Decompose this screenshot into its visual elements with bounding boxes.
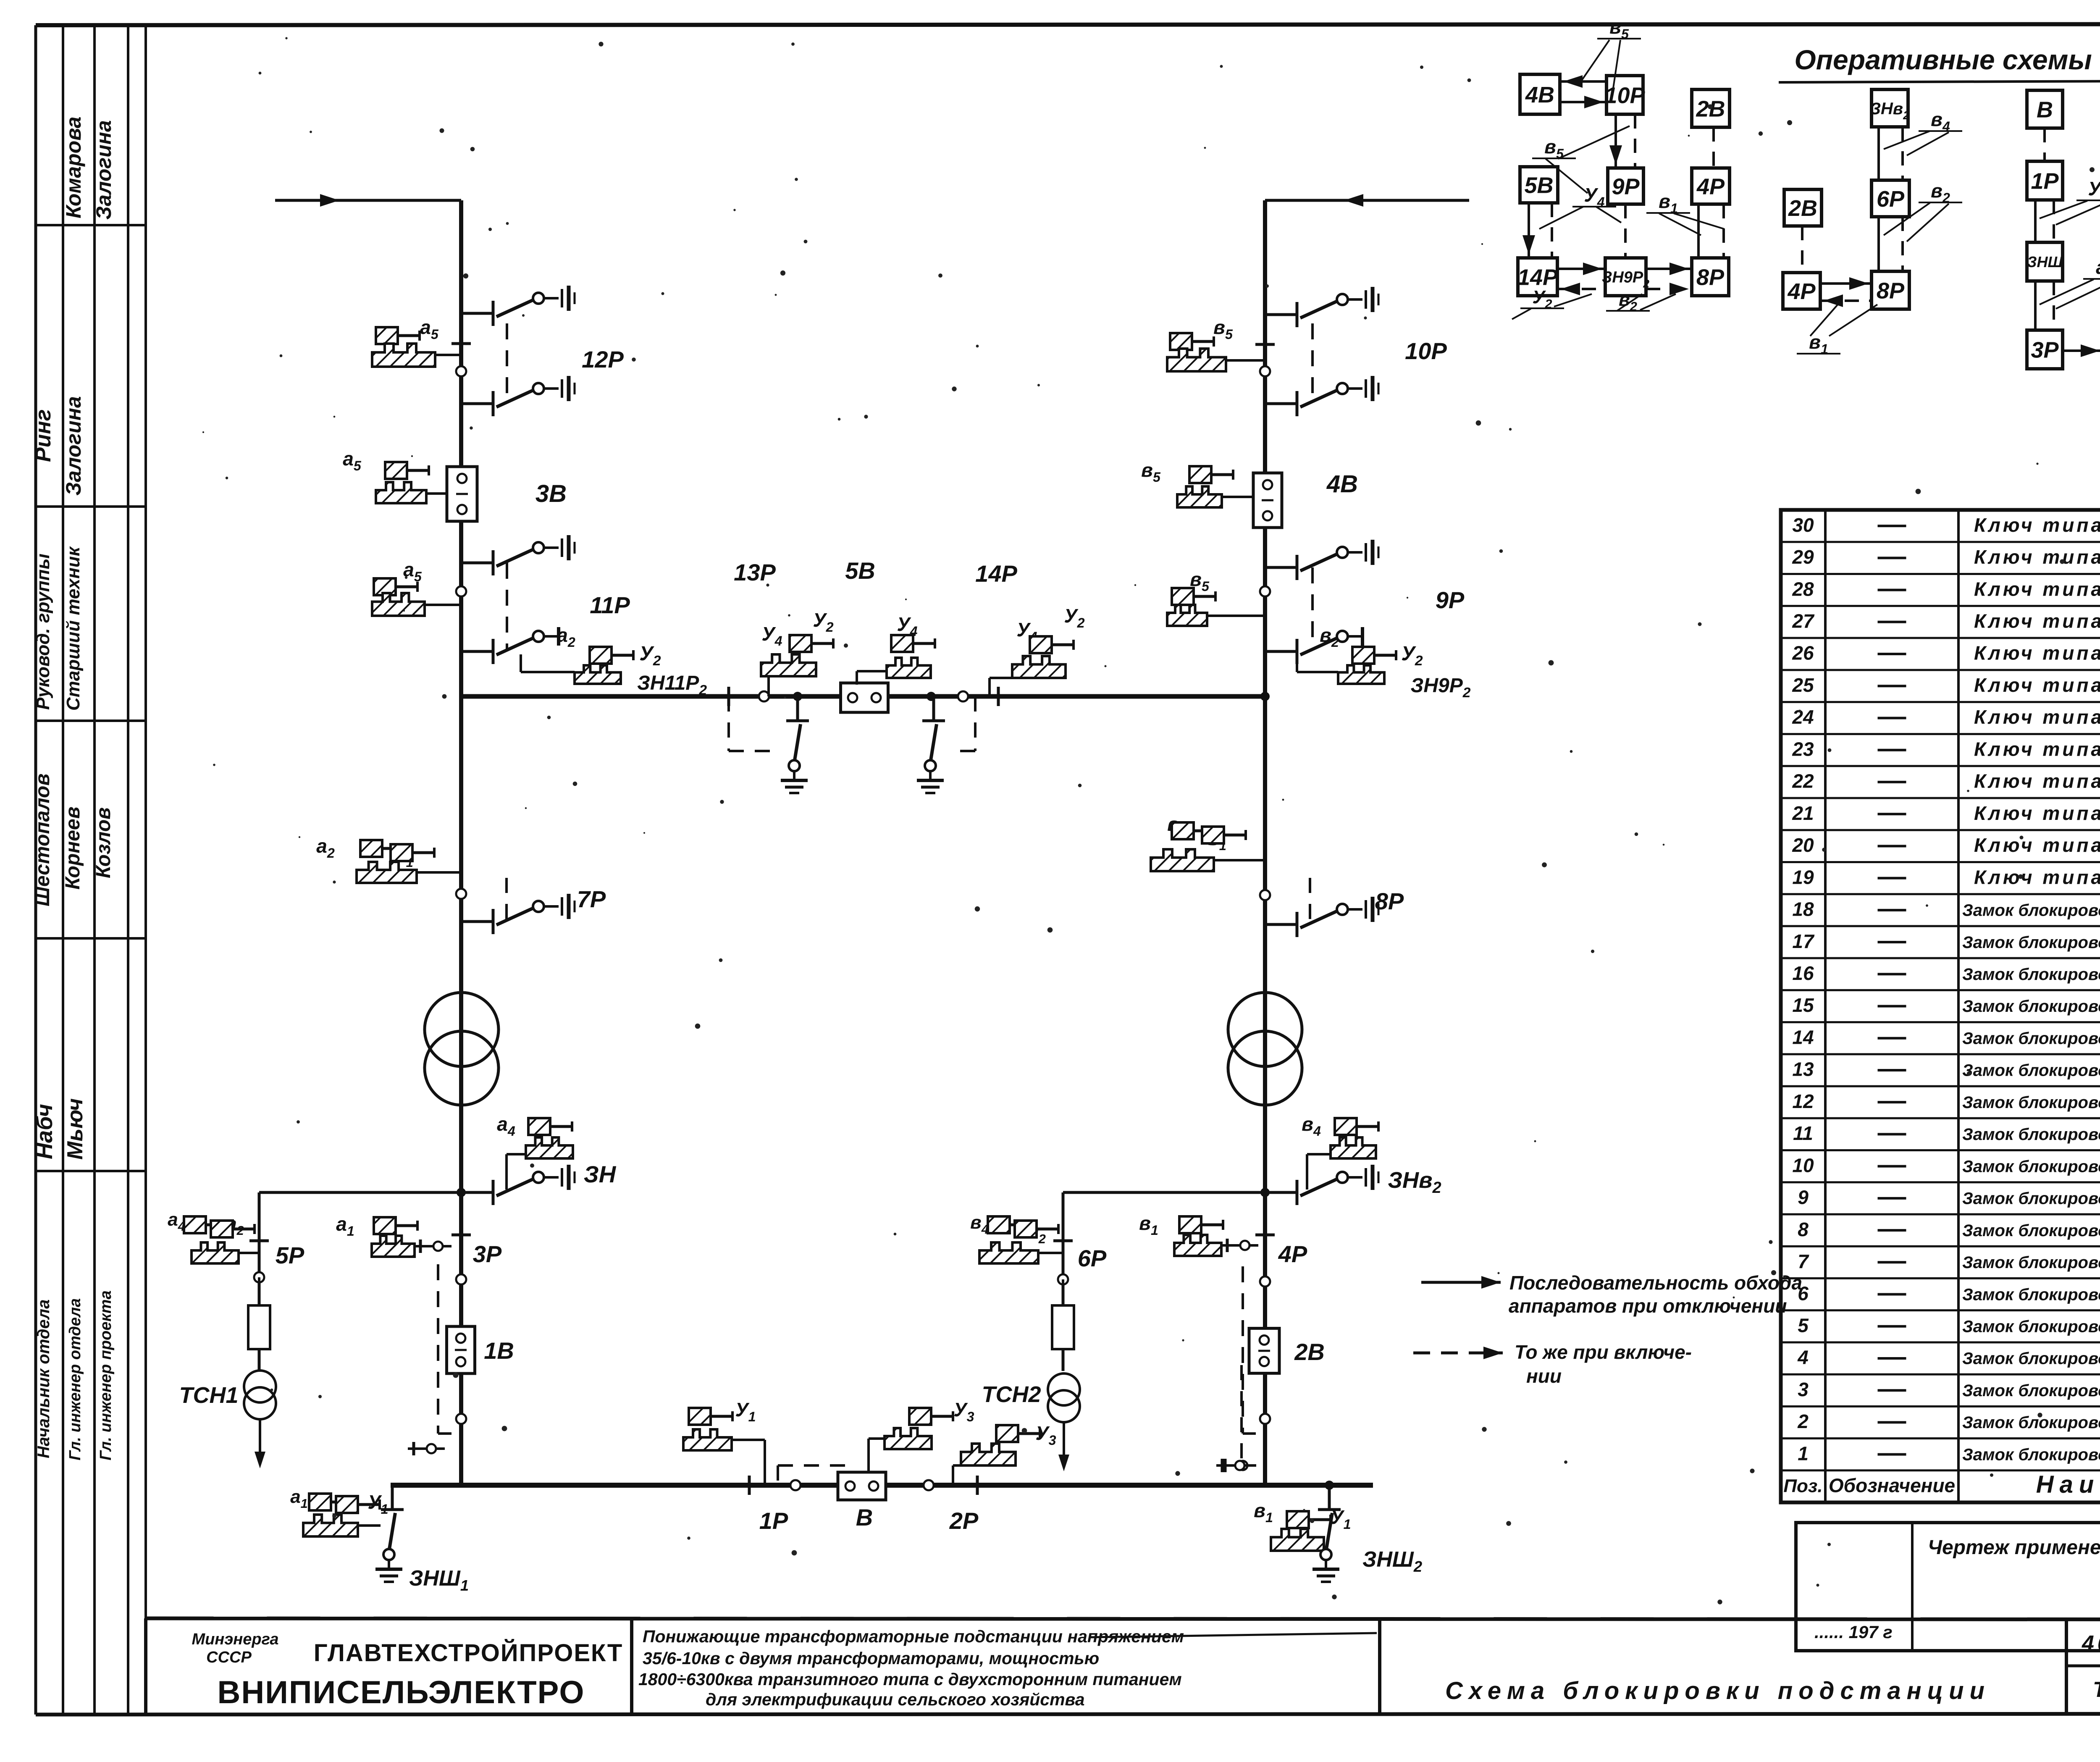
svg-text:ЗНШ1: ЗНШ1 <box>409 1566 469 1594</box>
svg-text:Мьюч: Мьюч <box>63 1098 87 1160</box>
svg-text:8Р: 8Р <box>1375 888 1404 914</box>
svg-text:4Р: 4Р <box>1787 279 1816 304</box>
svg-text:10Р: 10Р <box>1405 338 1447 364</box>
svg-text:СССР: СССР <box>206 1649 252 1666</box>
svg-text:ЗНШ: ЗНШ <box>2027 253 2063 270</box>
svg-text:Начальник отдела: Начальник отдела <box>34 1300 53 1458</box>
svg-text:3В: 3В <box>535 480 567 507</box>
svg-text:2В: 2В <box>1788 196 1817 221</box>
svg-text:6Р: 6Р <box>1078 1245 1107 1271</box>
svg-text:ЗН: ЗН <box>584 1161 617 1187</box>
svg-text:Т- 733 А-I: Т- 733 А-I <box>2093 1678 2100 1702</box>
svg-text:2Р: 2Р <box>949 1507 979 1534</box>
svg-text:Ключ типа К, секрет в5: Ключ типа К, секрет в5 <box>1974 642 2100 668</box>
svg-text:7Р: 7Р <box>577 886 606 912</box>
svg-text:Ключ типа К, секрет в4: Ключ типа К, секрет в4 <box>1974 674 2100 700</box>
svg-text:10Р: 10Р <box>1604 83 1645 108</box>
svg-text:17: 17 <box>1792 930 1815 952</box>
svg-text:24: 24 <box>1792 706 1814 728</box>
svg-text:ЗНШ2: ЗНШ2 <box>1362 1547 1422 1575</box>
svg-text:11: 11 <box>1793 1122 1813 1144</box>
svg-text:29: 29 <box>1792 546 1814 568</box>
svg-text:12Р: 12Р <box>582 346 624 373</box>
svg-text:Ключ типа К, секрет в1: Ключ типа К, секрет в1 <box>1974 738 2100 764</box>
svg-text:14: 14 <box>1792 1026 1814 1048</box>
svg-text:Козлов: Козлов <box>92 807 115 878</box>
svg-text:9Р: 9Р <box>1436 587 1465 613</box>
svg-text:13Р: 13Р <box>734 559 776 586</box>
svg-text:ГЛАВТЕХСТРОЙПРОЕКТ: ГЛАВТЕХСТРОЙПРОЕКТ <box>314 1639 623 1667</box>
svg-text:Ключ типа К, секрет У2: Ключ типа К, секрет У2 <box>1974 578 2100 604</box>
svg-text:4Р: 4Р <box>1696 174 1725 199</box>
svg-text:Минэнерга: Минэнерга <box>192 1631 279 1648</box>
svg-text:20: 20 <box>1792 834 1814 856</box>
svg-text:Набч: Набч <box>32 1104 57 1159</box>
svg-text:а1: а1 <box>2096 256 2100 282</box>
svg-text:16: 16 <box>1792 962 1814 984</box>
svg-text:22: 22 <box>1792 770 1814 792</box>
svg-text:Ключ типа К, секрет а5: Ключ типа К, секрет а5 <box>1974 770 2100 796</box>
svg-text:5: 5 <box>1798 1314 1809 1336</box>
svg-text:8Р: 8Р <box>1877 278 1905 303</box>
svg-text:5Р: 5Р <box>276 1242 304 1268</box>
svg-text:Ключ типа К, секрет в2: Ключ типа К, секрет в2 <box>1974 706 2100 732</box>
svg-text:10: 10 <box>1792 1154 1814 1176</box>
svg-text:4: 4 <box>1797 1347 1809 1368</box>
svg-text:нии: нии <box>1526 1365 1562 1387</box>
svg-text:14Р: 14Р <box>1517 265 1558 290</box>
svg-text:Шестопалов: Шестопалов <box>31 774 54 906</box>
svg-text:1В: 1В <box>484 1337 514 1364</box>
svg-text:1: 1 <box>1798 1442 1809 1464</box>
svg-text:У1: У1 <box>2088 178 2100 203</box>
svg-text:6Р: 6Р <box>1877 186 1905 212</box>
svg-text:Наименование: Наименование <box>2036 1471 2100 1498</box>
svg-text:ВНИПИСЕЛЬЭЛЕКТРО: ВНИПИСЕЛЬЭЛЕКТРО <box>218 1675 585 1710</box>
svg-text:Гл. инженер проекта: Гл. инженер проекта <box>97 1290 115 1460</box>
svg-text:5В: 5В <box>845 557 875 584</box>
svg-text:Оперативные схемы блокировки: Оперативные схемы блокировки <box>1794 44 2100 75</box>
svg-text:Схема блокировки подстанции: Схема блокировки подстанции <box>1445 1677 1990 1704</box>
svg-text:3Р: 3Р <box>473 1241 502 1267</box>
svg-text:14Р: 14Р <box>975 560 1017 587</box>
svg-text:Ключ типа К, секрет У3: Ключ типа К, секрет У3 <box>1974 546 2100 572</box>
svg-text:11Р: 11Р <box>590 592 630 618</box>
svg-text:Ключ типа К, секрет У4: Ключ типа К, секрет У4 <box>1974 514 2100 540</box>
svg-text:Комарова: Комарова <box>62 116 85 218</box>
svg-text:3Р: 3Р <box>2031 337 2059 362</box>
svg-text:30: 30 <box>1792 514 1814 536</box>
svg-text:5В: 5В <box>1524 173 1553 198</box>
svg-text:26: 26 <box>1792 642 1814 664</box>
svg-text:ТСН1: ТСН1 <box>179 1383 238 1408</box>
svg-text:Залогина: Залогина <box>62 396 85 496</box>
svg-text:8: 8 <box>1798 1218 1809 1240</box>
svg-text:ТСН2: ТСН2 <box>982 1382 1041 1407</box>
svg-text:То же при включе-: То же при включе- <box>1515 1341 1692 1363</box>
svg-text:4В: 4В <box>1525 82 1554 108</box>
svg-text:В: В <box>2037 97 2053 122</box>
svg-text:Корнеев: Корнеев <box>62 806 84 890</box>
svg-text:ЗН11Р2: ЗН11Р2 <box>637 672 707 698</box>
svg-text:Ринг: Ринг <box>31 409 55 462</box>
svg-text:4Р: 4Р <box>1278 1241 1307 1267</box>
svg-text:9: 9 <box>1798 1187 1809 1208</box>
svg-text:3: 3 <box>1798 1379 1809 1400</box>
svg-text:Залогина: Залогина <box>92 120 115 220</box>
svg-text:...... 197 г: ...... 197 г <box>1814 1622 1893 1642</box>
svg-text:35/6-10кв с двумя трансформат: 35/6-10кв с двумя трансформаторами, мощн… <box>643 1649 1099 1668</box>
svg-text:407- 3- 103: 407- 3- 103 <box>2082 1631 2100 1656</box>
svg-text:аппаратов при отключении: аппаратов при отключении <box>1509 1295 1787 1317</box>
svg-text:ЗН9Р2: ЗН9Р2 <box>1411 675 1471 701</box>
svg-text:Старший техник: Старший техник <box>63 546 84 711</box>
svg-text:Последовательность обхода: Последовательность обхода <box>1509 1272 1802 1294</box>
svg-text:19: 19 <box>1792 866 1814 888</box>
svg-text:13: 13 <box>1792 1058 1814 1080</box>
svg-text:15: 15 <box>1792 994 1814 1016</box>
svg-text:Руковод. группы: Руковод. группы <box>33 554 53 710</box>
svg-text:1Р: 1Р <box>2031 168 2059 194</box>
svg-text:18: 18 <box>1792 898 1814 920</box>
svg-text:1800÷6300ква транзитного типа: 1800÷6300ква транзитного типа с двухстор… <box>638 1670 1182 1689</box>
svg-text:28: 28 <box>1792 578 1814 600</box>
svg-text:Ключ типа К, секрет а1: Ключ типа К, секрет а1 <box>1974 866 2100 892</box>
svg-text:25: 25 <box>1792 674 1814 696</box>
svg-text:2: 2 <box>1797 1410 1809 1432</box>
svg-text:Поз.: Поз. <box>1783 1476 1822 1497</box>
svg-text:21: 21 <box>1792 802 1814 824</box>
svg-text:Обозначение: Обозначение <box>1829 1475 1955 1497</box>
svg-text:7: 7 <box>1798 1250 1809 1272</box>
svg-text:Ключ типа К, секрет а2: Ключ типа К, секрет а2 <box>1974 834 2100 860</box>
svg-text:27: 27 <box>1792 610 1815 632</box>
svg-text:9Р: 9Р <box>1612 174 1640 199</box>
svg-text:8Р: 8Р <box>1696 265 1725 290</box>
svg-text:1Р: 1Р <box>759 1507 788 1534</box>
svg-text:2В: 2В <box>1294 1339 1325 1365</box>
svg-text:4В: 4В <box>1326 470 1358 498</box>
svg-text:Ключ типа К, секрет У1: Ключ типа К, секрет У1 <box>1974 610 2100 636</box>
svg-text:23: 23 <box>1792 738 1814 760</box>
svg-text:Ключ типа К, секрет а4: Ключ типа К, секрет а4 <box>1974 802 2100 828</box>
svg-text:для электрификации сельского: для электрификации сельского хозяйства <box>706 1690 1085 1709</box>
svg-text:Чертеж применен в проекте: Чертеж применен в проекте <box>1928 1536 2100 1559</box>
svg-text:12: 12 <box>1792 1090 1814 1112</box>
svg-text:В: В <box>856 1504 873 1531</box>
svg-text:Гл. инженер отдела: Гл. инженер отдела <box>66 1298 84 1460</box>
